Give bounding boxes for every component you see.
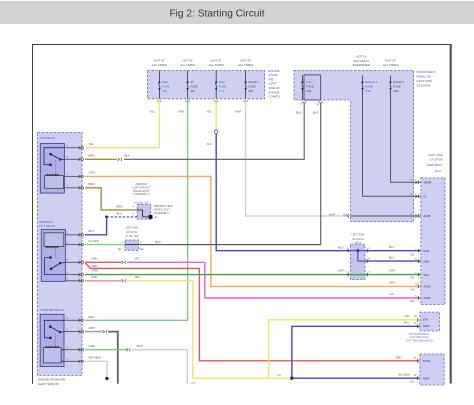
IGN fuse sub-box (304, 75, 321, 100)
svg-text:ENGINE ROOM R/B: ENGINE ROOM R/B (38, 378, 66, 382)
svg-text:ALL TIMES: ALL TIMES (238, 63, 253, 67)
svg-text:YEL: YEL (135, 275, 141, 279)
J/B1 internal blue split (356, 249, 359, 252)
svg-text:RED: RED (92, 257, 98, 261)
svg-text:PNK: PNK (92, 275, 98, 279)
svg-text:HOT AT: HOT AT (154, 59, 165, 63)
ECU pin IG (417, 195, 420, 199)
J/B1 internal green (351, 274, 365, 276)
svg-text:BLU: BLU (207, 142, 213, 146)
svg-text:FUSE: FUSE (365, 85, 373, 89)
svg-text:ALL TIMES: ALL TIMES (383, 63, 398, 67)
svg-text:SIDE OF: SIDE OF (269, 86, 281, 90)
wire BLU from J/B1 to main body ECU pins (365, 250, 421, 252)
starter relay contacts (44, 320, 64, 338)
fuse IGN 10A (301, 75, 303, 82)
ECU pin IAB1 (417, 259, 420, 263)
svg-text:ENGINE: ENGINE (269, 90, 280, 94)
svg-text:GRN: GRN (178, 109, 184, 113)
svg-text:ECU-IG 1: ECU-IG 1 (365, 80, 378, 84)
wire BLK from J/B pin G1 down-left (139, 103, 321, 245)
J/B internal WHT wire to pin 6 (351, 215, 414, 217)
svg-text:25A: 25A (248, 89, 253, 93)
short BLK links J/B to ECU (414, 181, 421, 183)
ECU pin WATB (417, 181, 420, 185)
svg-text:CUT RELAY: CUT RELAY (39, 224, 56, 228)
starter box (420, 354, 444, 385)
svg-text:YEL: YEL (89, 142, 95, 146)
svg-text:ROOM: ROOM (269, 73, 279, 77)
wire WHT from fuse4 to J/B (246, 99, 351, 216)
svg-text:10A: 10A (306, 89, 311, 93)
svg-text:STARTER: STARTER (39, 220, 54, 224)
svg-text:OF DASH): OF DASH) (430, 158, 443, 162)
ECU pin STA (417, 273, 420, 277)
svg-text:COMPT): COMPT) (269, 95, 280, 99)
svg-text:OF DASH): OF DASH) (417, 84, 431, 88)
svg-text:BLK: BLK (156, 240, 162, 244)
svg-text:HOT AT: HOT AT (385, 59, 396, 63)
svg-text:YEL: YEL (277, 374, 282, 377)
connector GRY (103, 330, 105, 333)
svg-text:BLU: BLU (117, 212, 123, 216)
svg-text:(LEFT SIDE: (LEFT SIDE (428, 153, 443, 157)
svg-text:BLU: BLU (389, 245, 395, 249)
svg-text:IGN: IGN (306, 80, 311, 84)
svg-text:ASSEMBLY): ASSEMBLY) (154, 211, 170, 215)
diagram frame (33, 44, 451, 46)
dash side connector box IE2/IE3 (125, 240, 139, 250)
ECU pin STR2 (417, 296, 420, 300)
fuse at x=216.2 (215, 70, 217, 82)
fuse at x=187.6 (187, 70, 189, 82)
wire LT-GRN from starter cut relay pin2 (85, 244, 125, 246)
svg-text:IG2 RELAY: IG2 RELAY (40, 136, 55, 140)
starter cut relay contacts (49, 256, 52, 259)
svg-text:BRN: BRN (89, 154, 95, 158)
svg-text:YEL: YEL (404, 314, 410, 318)
svg-text:BRN: BRN (89, 182, 95, 186)
instrument panel J/B box (294, 70, 414, 221)
svg-text:FUSE: FUSE (306, 85, 314, 89)
svg-text:ECU: ECU (435, 169, 441, 173)
svg-text:AM2: AM2 (219, 80, 225, 84)
svg-text:20A: 20A (393, 89, 398, 93)
svg-text:7.5A: 7.5A (219, 89, 225, 93)
svg-text:IGN RELAY: IGN RELAY (354, 59, 370, 63)
svg-text:GRN: GRN (389, 269, 395, 273)
svg-text:GRY: GRY (89, 326, 95, 330)
ECU pin AG25 (417, 285, 420, 289)
connector GRN to WHT (126, 348, 128, 351)
J/B internal wire from ECU-IG1 fuse to pin 11 (363, 89, 414, 197)
J/B bottom connectors I7 G1 (302, 101, 306, 103)
svg-text:HOT AT: HOT AT (240, 59, 251, 63)
svg-text:YEL: YEL (150, 109, 156, 113)
wire ORG from IG2 relay pin2 to main body ECU (85, 176, 421, 286)
fuse at x=159.4 (158, 70, 160, 82)
IG2 relay coil (45, 176, 64, 189)
wire BLU from NSW down to bottom junction (292, 326, 420, 378)
title bar (0, 1, 474, 24)
svg-text:RED: RED (92, 264, 98, 268)
svg-text:30A: 30A (190, 89, 195, 93)
svg-text:WHT: WHT (329, 212, 336, 216)
starter relay pin stubs (64, 319, 80, 321)
connector YEL to BLU (215, 130, 218, 133)
svg-text:VIO: VIO (389, 292, 395, 296)
svg-text:(LEFT SIDE: (LEFT SIDE (417, 79, 433, 83)
wire RED from starter cut relay pin5 (85, 261, 121, 263)
svg-text:ALL TIMES: ALL TIMES (180, 63, 195, 67)
wire BLK from J/B pin I7 down-left to IG2 relay (124, 103, 304, 160)
svg-text:VIO: VIO (135, 257, 141, 261)
svg-text:PANEL J/B: PANEL J/B (417, 75, 431, 79)
fuse at x=245.6 (245, 70, 247, 82)
svg-text:GRN: GRN (88, 315, 94, 319)
ECU pin ALTB (417, 214, 420, 218)
svg-text:LT-GRN: LT-GRN (89, 239, 99, 243)
wire WHT/BLK from starter relay pin2 (85, 361, 107, 380)
J/B WHT entry pin (347, 214, 350, 218)
svg-text:BRN: BRN (117, 205, 123, 209)
svg-text:30A: 30A (162, 89, 167, 93)
wire YEL from fuse1 to IG2 relay (86, 99, 159, 148)
wire PNK from starter cut relay pin6 (85, 280, 121, 282)
svg-text:GRN: GRN (338, 269, 344, 273)
wire RED branch to starter ECU (85, 263, 420, 361)
svg-text:7.5A: 7.5A (365, 89, 371, 93)
svg-text:1D: 1D (368, 272, 371, 274)
svg-text:ORG: ORG (89, 171, 96, 175)
transmission control ECU box (420, 312, 440, 331)
svg-text:2D: 2D (368, 248, 371, 250)
connector BRN-BLK (118, 158, 120, 161)
svg-text:Fig 2: Starting Circuit: Fig 2: Starting Circuit (169, 8, 264, 19)
wire GRY from starter relay pin5 (85, 331, 103, 333)
svg-text:BLK: BLK (296, 111, 302, 115)
svg-text:ENERGIZED: ENERGIZED (353, 63, 371, 67)
svg-text:(LEFT: (LEFT (269, 82, 277, 86)
J/B1 box (351, 244, 365, 279)
IG2 relay pin stubs (64, 147, 80, 149)
svg-text:FUSE: FUSE (393, 85, 401, 89)
main body ECU box (421, 178, 445, 305)
ground square at headlight connector (149, 215, 153, 219)
svg-text:ALL TIMES: ALL TIMES (209, 63, 224, 67)
relay IG2 inner box (40, 144, 64, 194)
svg-text:WHT: WHT (137, 344, 144, 348)
J/B internal wire from DOOR2 fuse to pin 2 (391, 89, 414, 183)
svg-text:BLU: BLU (338, 245, 344, 249)
svg-text:WHT/BLK: WHT/BLK (89, 356, 102, 360)
headlight connector box (137, 204, 151, 219)
starter relay coil (43, 348, 61, 363)
svg-text:BLU: BLU (89, 229, 95, 233)
wire BRN from IG2 relay pin1 to headlight connector (85, 188, 137, 210)
wire WHT continues down (132, 350, 188, 384)
svg-text:HOT AT: HOT AT (211, 59, 222, 63)
wire BRN from IG2 relay pin5 (85, 158, 117, 160)
svg-text:BLK: BLK (313, 111, 319, 115)
starter cut relay coil (44, 233, 64, 247)
wire YEL fuse3 to connector (215, 99, 217, 130)
svg-text:MAIN BODY: MAIN BODY (427, 163, 443, 167)
svg-text:FUSE: FUSE (162, 84, 170, 88)
svg-text:DOOR 1: DOOR 1 (248, 80, 259, 84)
wire GRN from fuse2 to starter relay (85, 99, 188, 320)
svg-text:ALL TIMES: ALL TIMES (152, 63, 167, 67)
svg-text:HOT AT: HOT AT (182, 59, 193, 63)
wire VIO to main body ECU (127, 262, 421, 298)
connector PNK to YEL (122, 279, 124, 282)
svg-text:BLU: BLU (389, 256, 395, 260)
wire BLU from starter cut relay pin1 up to junction (85, 217, 107, 235)
svg-text:FUSE: FUSE (190, 84, 198, 88)
ECU pin IA42 (417, 249, 420, 253)
engine room relay box (dashed) (38, 132, 83, 375)
starter cut relay inner box (41, 230, 65, 282)
svg-text:BLK: BLK (125, 154, 131, 158)
svg-text:GRN: GRN (89, 344, 95, 348)
svg-text:ST: ST (190, 80, 194, 84)
engine room R/B box (148, 70, 265, 98)
svg-text:BLU/BLK: BLU/BLK (399, 373, 411, 377)
svg-text:YEL: YEL (207, 109, 213, 113)
wire GRY continues down (108, 332, 118, 384)
wire GRN from starter relay pin1 (85, 349, 126, 351)
svg-text:R/B: R/B (269, 77, 274, 81)
svg-text:RED: RED (396, 355, 402, 359)
svg-text:WHT: WHT (235, 109, 242, 113)
svg-text:ASSEMBLY): ASSEMBLY) (133, 192, 149, 196)
svg-text:HOT IN: HOT IN (356, 54, 366, 58)
wire BLU from connector to J/B1 (216, 133, 350, 250)
svg-text:FUSE: FUSE (219, 84, 227, 88)
junction dot WHT/BLK end (105, 377, 108, 380)
wire BLU/BLK from junction to starter NSW (292, 377, 420, 379)
wire YEL branch up to transmission ECU STA (269, 320, 420, 378)
fuse wire exit connectors (158, 100, 162, 102)
svg-text:STARTER RELAY: STARTER RELAY (41, 308, 65, 312)
svg-text:(LEFT SIDE OF: (LEFT SIDE OF (38, 382, 59, 386)
svg-text:GRN: GRN (92, 269, 98, 273)
svg-text:ENGINE: ENGINE (269, 69, 280, 73)
svg-text:WHT: WHT (191, 382, 197, 385)
fuse ECU-IG1 7.5A (362, 75, 364, 82)
wire BLK from connector to J/B (139, 244, 321, 246)
svg-text:BLU: BLU (404, 321, 410, 325)
svg-text:INSTRUMENT: INSTRUMENT (417, 70, 436, 74)
svg-text:FUSE: FUSE (248, 84, 256, 88)
wire BLU dashed from junction to headlight connector (105, 216, 108, 219)
wire YEL to bottom junction (127, 281, 292, 378)
bottom junction dot (290, 377, 293, 380)
wire GRN from starter cut relay pin3 to main body ECU STA (85, 274, 421, 276)
svg-text:ORG: ORG (389, 281, 396, 285)
starter cut relay pin stubs (65, 234, 80, 236)
fuse DOOR2 20A (390, 75, 392, 82)
svg-text:AM2: AM2 (162, 80, 168, 84)
svg-text:(I7, I20 : I23): (I7, I20 : I23) (125, 236, 138, 238)
IG2 relay contacts (44, 148, 64, 165)
connector RED to VIO (122, 261, 124, 264)
starter relay inner box (40, 314, 64, 366)
svg-text:DOOR 2: DOOR 2 (393, 80, 404, 84)
